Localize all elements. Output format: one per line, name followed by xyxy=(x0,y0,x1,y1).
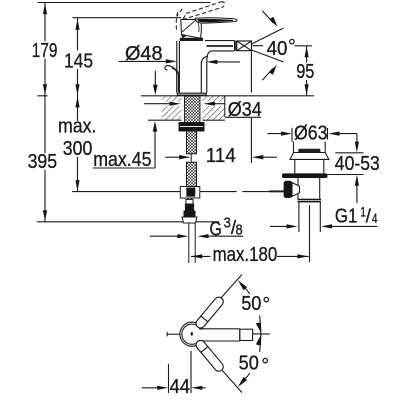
svg-text:8: 8 xyxy=(236,223,243,239)
svg-text:max.180: max.180 xyxy=(213,244,278,266)
svg-text:G1: G1 xyxy=(335,206,358,228)
svg-text:max.45: max.45 xyxy=(93,149,151,171)
svg-text:Ø34: Ø34 xyxy=(228,99,262,121)
svg-text:40: 40 xyxy=(267,38,288,60)
svg-text:Ø48: Ø48 xyxy=(125,43,163,65)
svg-text:4: 4 xyxy=(372,211,378,226)
svg-text:G: G xyxy=(210,218,222,240)
svg-text:95: 95 xyxy=(296,61,314,83)
svg-text:300: 300 xyxy=(63,138,93,160)
svg-text:3: 3 xyxy=(224,216,231,232)
svg-text:395: 395 xyxy=(28,151,57,173)
svg-text:/: / xyxy=(231,218,237,239)
svg-text:50: 50 xyxy=(241,293,261,315)
svg-text:40-53: 40-53 xyxy=(335,153,380,175)
svg-text:44: 44 xyxy=(170,376,190,398)
svg-text:145: 145 xyxy=(64,51,93,73)
svg-text:Ø63: Ø63 xyxy=(294,123,328,145)
svg-text:114: 114 xyxy=(206,145,236,167)
svg-text:50: 50 xyxy=(239,353,259,375)
svg-text:179: 179 xyxy=(32,40,58,62)
svg-text:max.: max. xyxy=(58,116,97,138)
svg-text:/: / xyxy=(366,207,372,228)
